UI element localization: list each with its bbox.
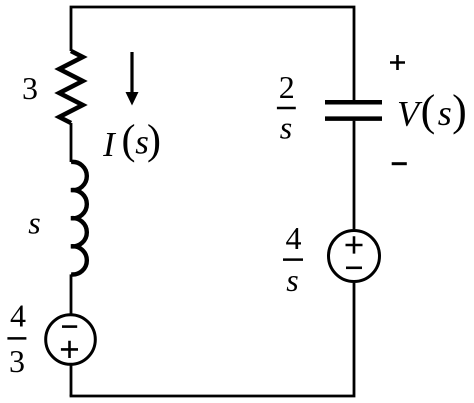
current arrow I(s) [130, 52, 133, 94]
svg-text:): ) [452, 86, 467, 135]
capacitor C=2/s plates [325, 102, 382, 118]
voltage source V1 = 4/3 circle [46, 315, 96, 365]
polarity plus (capacitor top) [390, 55, 405, 70]
svg-text:(: ( [122, 118, 136, 164]
inductor L=s coil [71, 162, 87, 275]
bottom wire [70, 283, 354, 396]
wire resistor to inductor [70, 123, 73, 162]
V2 plus sign (top) [346, 236, 363, 253]
svg-text:s: s [280, 110, 292, 146]
wire source V1 to bottom rail [70, 364, 73, 396]
polarity minus (capacitor bottom) [392, 162, 407, 165]
svg-text:s: s [28, 205, 40, 241]
svg-text:2: 2 [279, 69, 295, 105]
resistor R=3 zigzag [59, 51, 82, 123]
wire inductor to source V1 [70, 274, 73, 315]
V2 minus sign (bottom) [346, 266, 362, 269]
svg-text:s: s [438, 93, 452, 133]
wire top loop: left rail up, top wire, right rail down to capacitor [71, 7, 354, 100]
V1 minus sign (top) [62, 325, 77, 328]
V1 plus sign (bottom) [61, 341, 78, 358]
svg-text:(: ( [421, 86, 436, 135]
wire source V2 to capacitor [353, 121, 356, 229]
svg-text:3: 3 [9, 343, 25, 379]
svg-text:3: 3 [22, 70, 38, 106]
svg-text:4: 4 [10, 298, 26, 334]
svg-text:4: 4 [286, 220, 302, 256]
voltage source V2 = 4/s circle [329, 231, 380, 282]
svg-text:): ) [147, 118, 161, 164]
svg-text:s: s [286, 262, 298, 298]
